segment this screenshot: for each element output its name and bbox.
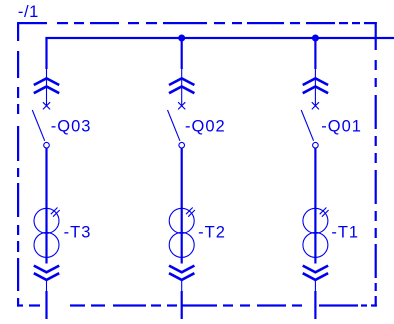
svg-text:-Q01: -Q01 bbox=[321, 117, 362, 135]
svg-text:-T1: -T1 bbox=[331, 224, 359, 242]
svg-text:-T3: -T3 bbox=[64, 224, 92, 242]
svg-text:-Q03: -Q03 bbox=[51, 117, 92, 135]
svg-text:-Q02: -Q02 bbox=[185, 117, 226, 135]
svg-text:-T2: -T2 bbox=[198, 224, 226, 242]
svg-text:-/1: -/1 bbox=[18, 3, 39, 21]
